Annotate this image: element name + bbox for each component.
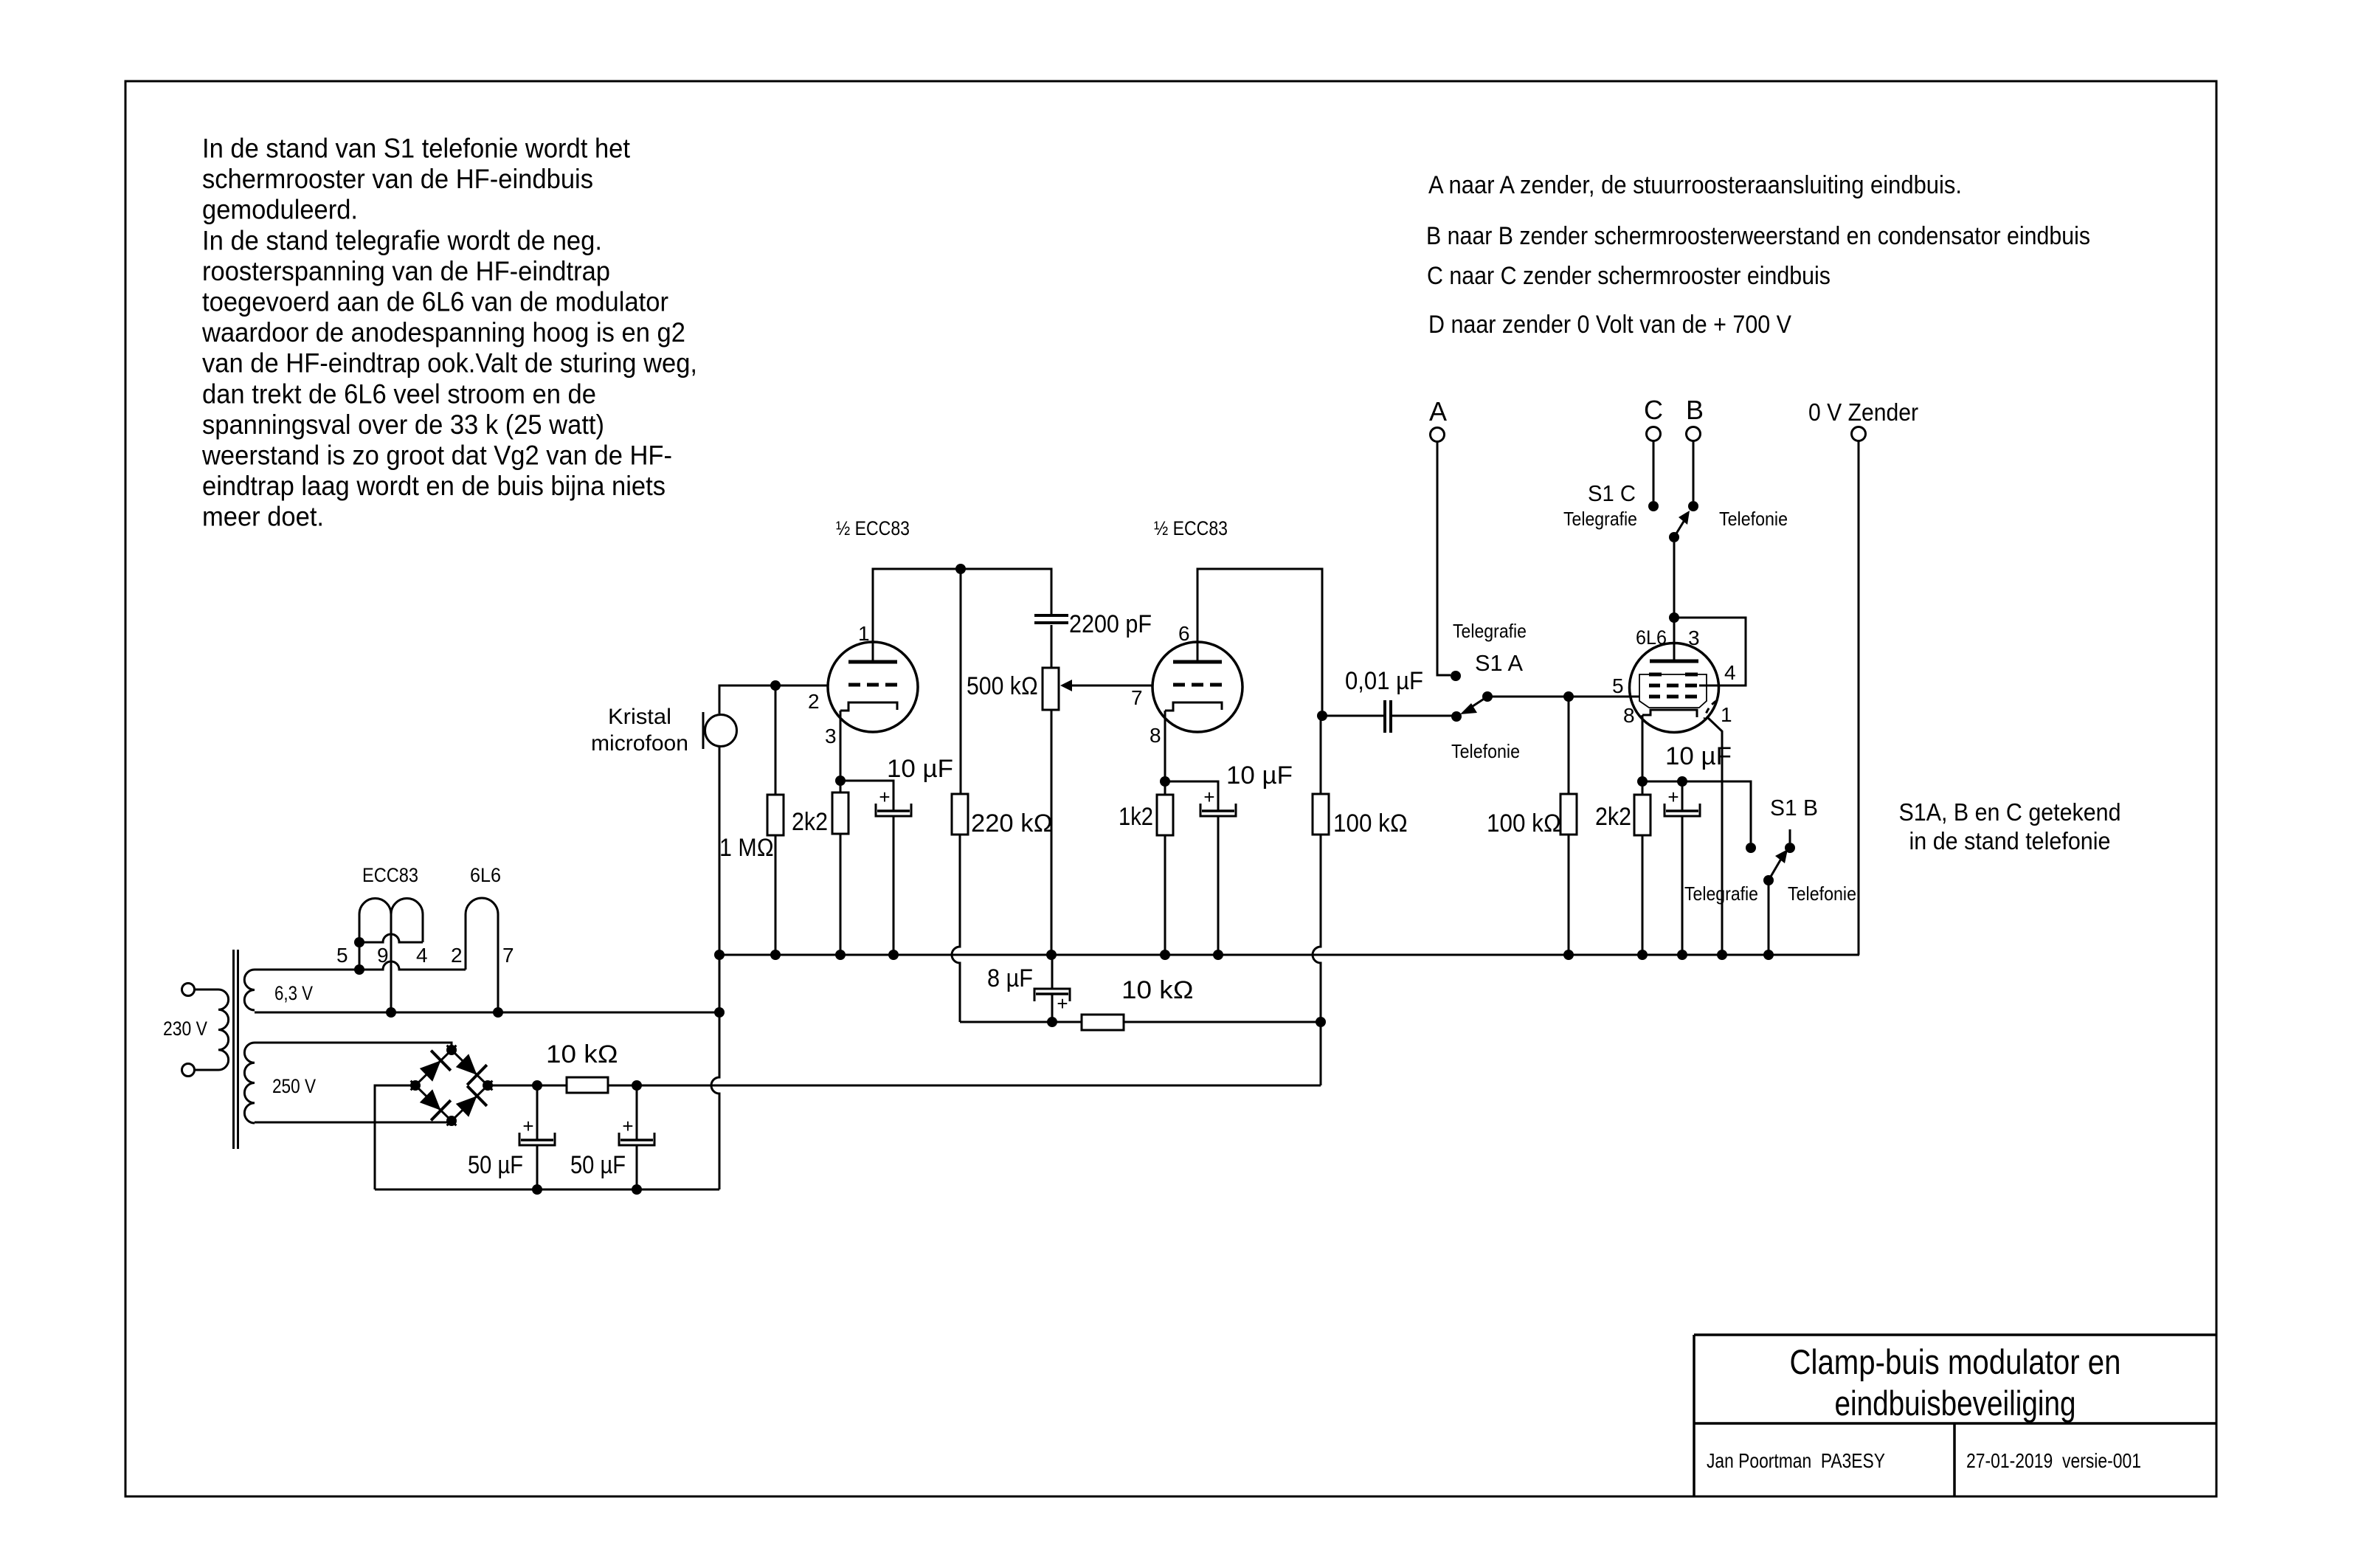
6L6 pin 1 dashed arc [1704, 701, 1716, 719]
wire 220k bottom with hop over ground bus [952, 835, 960, 1022]
wire 8uF to node [1051, 994, 1054, 1022]
node 6.3V pin5 [354, 964, 364, 975]
wire 50uF#1 top [536, 1085, 539, 1140]
svg-text:+: + [1667, 786, 1679, 808]
svg-text:B: B [1686, 395, 1704, 425]
wire 1M top [775, 685, 777, 795]
svg-text:500 kΩ: 500 kΩ [967, 672, 1038, 700]
svg-text:0 V Zender: 0 V Zender [1808, 398, 1918, 426]
svg-text:2: 2 [808, 690, 820, 713]
node bridge AC bottom [446, 1116, 457, 1126]
wire 2200pF to pot [1051, 625, 1053, 668]
wire 250V top to bridge [255, 1043, 452, 1050]
wire 10uF bottom [893, 816, 895, 955]
wire 0,01uF to S1A [1392, 715, 1456, 717]
svg-text:10 µF: 10 µF [1226, 761, 1293, 790]
6L6 beam plate dashes [1649, 673, 1662, 677]
wire V1 cathode down [840, 711, 842, 781]
svg-text:1: 1 [1721, 703, 1732, 726]
bridge diode D3 (left-bottom) [420, 1089, 441, 1111]
wire B+ node down [1320, 1022, 1322, 1085]
triode V2 (1/2 ECC83) [1152, 642, 1242, 732]
svg-text:4: 4 [416, 944, 428, 967]
svg-text:27-01-2019 versie-001: 27-01-2019 versie-001 [1966, 1449, 2141, 1472]
svg-text:10 µF: 10 µF [1665, 742, 1732, 770]
ground bus junction [1717, 950, 1727, 960]
terminal B [1687, 427, 1701, 441]
svg-text:roosterspanning van de HF-eind: roosterspanning van de HF-eindtrap [202, 256, 610, 286]
svg-text:eindbuisbeveiliging: eindbuisbeveiliging [1835, 1384, 2076, 1423]
node 8uF [1047, 1017, 1057, 1027]
wire V1 grid to microphone [719, 685, 828, 714]
capacitor 0,01uF [1383, 700, 1386, 733]
svg-text:ECC83: ECC83 [362, 864, 418, 886]
bridge diode D1 (left-top) [420, 1060, 441, 1082]
wire 50uF#2 top [636, 1085, 638, 1140]
svg-text:½ ECC83: ½ ECC83 [1154, 517, 1228, 539]
svg-text:10 kΩ: 10 kΩ [1121, 976, 1194, 1004]
svg-text:Kristal: Kristal [608, 705, 671, 729]
resistor 100k (grid leak 6L6) [1560, 794, 1577, 835]
wire to 1k2 [1164, 781, 1166, 795]
wire 2k2 bottom [840, 834, 842, 955]
wire 1k2 bottom [1164, 835, 1166, 955]
ground bus junction [1160, 950, 1170, 960]
svg-text:2: 2 [451, 944, 463, 967]
title block box [1694, 1335, 2216, 1496]
S1B pivot [1763, 875, 1774, 885]
wire 2k2 6L6 bottom [1642, 835, 1644, 955]
node 6L6 cathode [1637, 776, 1648, 787]
svg-text:+: + [879, 786, 890, 808]
svg-text:100 kΩ: 100 kΩ [1333, 809, 1408, 837]
wire 50uF#2 bottom [636, 1145, 638, 1189]
svg-text:7: 7 [502, 944, 514, 967]
svg-text:A naar A zender, de stuurroost: A naar A zender, de stuurroosteraansluit… [1428, 171, 1962, 199]
svg-text:eindtrap laag wordt en de buis: eindtrap laag wordt en de buis bijna nie… [202, 471, 666, 501]
ground bus junction [1763, 950, 1774, 960]
wire terminal C down [1653, 441, 1655, 501]
svg-text:spanningsval over de 33 k (25: spanningsval over de 33 k (25 watt) [202, 410, 604, 440]
capacitor 10uF (V2 cathode) [1202, 809, 1234, 812]
svg-text:50 µF: 50 µF [468, 1151, 523, 1179]
resistor 1k2 [1157, 795, 1173, 835]
pot wiper arrow to V2 grid [1071, 685, 1152, 687]
svg-text:2200 pF: 2200 pF [1069, 610, 1152, 638]
node 10uF 6L6 top [1677, 776, 1687, 787]
node V1 cathode [835, 776, 846, 786]
node 50uF #2 [632, 1080, 642, 1091]
wire cathode to 10uF (6L6) [1642, 781, 1682, 783]
S1C telegrafie contact [1648, 501, 1659, 511]
wire 6L6 cathode down [1642, 715, 1644, 781]
svg-text:Telefonie: Telefonie [1788, 883, 1856, 905]
6L6 control grid dashes [1649, 695, 1660, 699]
svg-text:1k2: 1k2 [1119, 803, 1153, 831]
ground bus junction [1046, 950, 1057, 960]
node grid / 1M [770, 680, 781, 691]
wire to 2k2 (6L6) [1642, 781, 1644, 795]
capacitor 8uF [1034, 989, 1070, 1001]
resistor 220k [952, 794, 968, 835]
svg-text:220 kΩ: 220 kΩ [971, 809, 1053, 837]
svg-text:2k2: 2k2 [792, 808, 828, 836]
6L6 grid cage box [1639, 674, 1707, 708]
B+ rail from bridge [488, 1085, 1321, 1087]
svg-text:+: + [1203, 786, 1214, 808]
S1A telegrafie contact [1451, 671, 1461, 681]
svg-text:B naar B zender schermroosterw: B naar B zender schermroosterweerstand e… [1426, 222, 2090, 250]
wire cathode to 10uF (V2) [1165, 781, 1218, 811]
wire V2 anode loop to output node [1197, 569, 1322, 711]
svg-text:Telegrafie: Telegrafie [1453, 620, 1527, 642]
node pin5 link [354, 937, 364, 947]
capacitor 2200pF [1034, 614, 1068, 617]
wire microphone to ground spine [719, 747, 721, 955]
heater pin4 leg [422, 914, 424, 942]
svg-text:+: + [622, 1115, 633, 1137]
terminal C [1647, 427, 1661, 441]
transformer 250V winding [244, 1043, 255, 1123]
potentiometer 500k [1043, 668, 1059, 710]
svg-text:Telegrafie: Telegrafie [1684, 883, 1758, 905]
transformer core [232, 950, 235, 1149]
wire S1A to 6L6 grid [1487, 696, 1639, 698]
wire terminal to primary [195, 989, 219, 991]
wire ground bus to 8uF [1051, 955, 1054, 988]
ground bus junction [835, 950, 846, 960]
svg-text:C: C [1644, 395, 1663, 425]
wire anode to S1C pivot [1673, 542, 1676, 618]
svg-text:C naar C zender schermrooster: C naar C zender schermrooster eindbuis [1427, 262, 1831, 290]
svg-text:In de stand van S1 telefonie w: In de stand van S1 telefonie wordt het [202, 134, 631, 164]
resistor 10k (decoupling) [1082, 1015, 1124, 1030]
svg-text:S1 A: S1 A [1475, 650, 1523, 676]
node V2 cathode [1160, 776, 1170, 787]
resistor 100k (V2 load) [1313, 794, 1329, 835]
6L6 heater arc [466, 898, 498, 914]
svg-text:S1A, B en C getekend: S1A, B en C getekend [1899, 798, 2121, 826]
transformer primary winding [218, 990, 229, 1070]
node 50uF#1 gnd [532, 1184, 542, 1195]
capacitor 50uF #1 [521, 1139, 553, 1142]
ground bus junction [770, 950, 781, 960]
primary terminal 1 [182, 984, 195, 996]
6.3V return line [255, 1012, 719, 1014]
svg-text:4: 4 [1724, 661, 1736, 684]
6.3V top line with hop [255, 961, 466, 970]
6L6 pin 1 wire [1707, 717, 1722, 955]
svg-text:1 MΩ: 1 MΩ [719, 834, 774, 862]
ground bus junction [1213, 950, 1223, 960]
heater pin5 leg [359, 914, 361, 970]
svg-text:Clamp-buis modulator en: Clamp-buis modulator en [1790, 1342, 2121, 1381]
svg-text:8 µF: 8 µF [987, 964, 1033, 992]
svg-text:Jan Poortman PA3ESY: Jan Poortman PA3ESY [1707, 1449, 1885, 1472]
svg-text:Telefonie: Telefonie [1451, 740, 1520, 762]
S1B lever [1769, 859, 1781, 880]
S1A lever [1468, 697, 1487, 709]
node 6.3V return to ground spine [714, 1007, 725, 1018]
svg-text:8: 8 [1623, 704, 1635, 727]
resistor 2k2 (6L6) [1634, 795, 1650, 835]
capacitor 10uF (6L6 cathode) [1666, 809, 1698, 812]
wire V1 anode to 2200pF [873, 569, 1051, 662]
node pin9 on 6.3V return [386, 1007, 396, 1018]
wire 10uF 6L6 bottom [1681, 816, 1684, 955]
PSU ground bus [375, 1189, 719, 1191]
wire 100k right top [1568, 697, 1570, 794]
node bridge plus [483, 1080, 493, 1091]
ground spine with hop over B+ [711, 955, 719, 1189]
node bridge AC top [446, 1045, 457, 1055]
node 50uF#2 gnd [632, 1184, 642, 1195]
bridge diode D4 (bottom-right) [456, 1096, 477, 1117]
transformer 6.3V winding [244, 970, 255, 1010]
wire 10k to B+ node [1124, 1021, 1321, 1023]
wire terminal 2 to primary [195, 1069, 219, 1071]
svg-text:microfoon: microfoon [591, 731, 688, 756]
svg-text:½ ECC83: ½ ECC83 [836, 517, 910, 539]
S1A telefonie contact [1451, 711, 1462, 722]
svg-text:10 µF: 10 µF [887, 755, 953, 783]
ground bus junction [1563, 950, 1574, 960]
node 6L6 anode [1669, 612, 1679, 623]
svg-text:0,01 µF: 0,01 µF [1345, 667, 1423, 695]
svg-text:In de stand telegrafie wordt d: In de stand telegrafie wordt de neg. [202, 225, 602, 255]
ground bus junction [888, 950, 899, 960]
svg-text:in de stand telefonie: in de stand telefonie [1909, 827, 2111, 854]
svg-text:1: 1 [858, 622, 870, 645]
wire terminal A to S1A telegrafie contact [1437, 442, 1451, 675]
svg-text:D naar zender 0 Volt van de +: D naar zender 0 Volt van de + 700 V [1428, 311, 1791, 339]
svg-text:230 V: 230 V [163, 1018, 207, 1040]
wire V2 cathode down [1164, 711, 1166, 781]
svg-text:dan trekt de 6L6 veel stroom e: dan trekt de 6L6 veel stroom en de [202, 379, 596, 409]
svg-text:8: 8 [1150, 724, 1161, 747]
ground bus junction [714, 950, 725, 960]
wire 10uF V2 bottom [1217, 816, 1220, 955]
svg-text:5: 5 [1612, 674, 1624, 697]
svg-text:6: 6 [1178, 622, 1190, 645]
svg-text:waardoor de anodespanning hoog: waardoor de anodespanning hoog is en g2 [201, 317, 685, 348]
kristal microfoon symbol [705, 715, 737, 747]
svg-text:meer doet.: meer doet. [202, 502, 324, 532]
wire 250V bottom to bridge [255, 1122, 452, 1124]
B+ line 220k to V2 load [960, 1021, 1082, 1023]
capacitor 10uF (V1 cathode) [877, 809, 910, 812]
6L6 cathode [1642, 710, 1697, 717]
svg-text:S1 B: S1 B [1770, 795, 1818, 821]
svg-text:S1 C: S1 C [1588, 480, 1636, 506]
pin5-pin4 link with hop [359, 934, 423, 942]
svg-text:Telegrafie: Telegrafie [1563, 508, 1637, 530]
6L6 screen grid dashes [1649, 684, 1660, 688]
node 50uF #1 [532, 1080, 542, 1091]
ground bus [719, 954, 1859, 956]
S1C pivot [1669, 532, 1679, 542]
svg-text:gemoduleerd.: gemoduleerd. [202, 195, 358, 225]
node V2 output [1317, 711, 1327, 721]
terminal 0V zender [1852, 427, 1866, 441]
wire bridge minus to PSU ground [375, 1085, 415, 1189]
S1A pivot [1482, 691, 1493, 702]
bridge diamond [447, 1046, 493, 1091]
wire 10uF 6L6 riser [1681, 781, 1684, 811]
S1B telefonie contact [1785, 843, 1795, 853]
wire cathode to 10uF cap [840, 781, 893, 811]
svg-text:250 V: 250 V [272, 1075, 316, 1097]
heater 6L6 pin7 leg [497, 914, 499, 1012]
resistor 10k (PSU) [567, 1077, 608, 1093]
6L6 anode plate [1650, 660, 1698, 663]
svg-text:weerstand is zo groot dat Vg2: weerstand is zo groot dat Vg2 van de HF- [201, 441, 672, 471]
svg-text:7: 7 [1131, 686, 1143, 709]
svg-text:100 kΩ: 100 kΩ [1487, 809, 1561, 837]
ground bus junction [1637, 950, 1648, 960]
bridge diode D2 (top-right) [456, 1054, 477, 1075]
node B+ / V2 load [1316, 1017, 1326, 1027]
node 100k (right) top [1563, 691, 1574, 702]
6L6 screen loop to pin 4 [1674, 618, 1746, 685]
node pin7 on 6.3V return [493, 1007, 503, 1018]
wire cathode to S1B telegrafie contact [1682, 781, 1751, 843]
resistor 1M [767, 795, 784, 835]
6L6 anode riser [1673, 618, 1676, 661]
wire V2 node to 100k [1320, 716, 1322, 794]
capacitor 50uF #2 [621, 1139, 653, 1142]
6L6 envelope [1630, 643, 1719, 733]
wire 1M bottom [775, 835, 777, 955]
svg-text:6L6: 6L6 [470, 864, 501, 886]
svg-text:2k2: 2k2 [1595, 803, 1631, 831]
triode V1 (1/2 ECC83) [828, 642, 918, 732]
wire 100k V2 bottom with hop over ground bus [1313, 835, 1321, 1022]
svg-text:toegevoerd aan de 6L6 van de m: toegevoerd aan de 6L6 van de modulator [202, 287, 668, 317]
node V1 anode rail / 220k [955, 564, 966, 574]
resistor 2k2 (V1) [832, 792, 848, 834]
svg-text:van de HF-eindtrap ook.Valt de: van de HF-eindtrap ook.Valt de sturing w… [202, 348, 697, 379]
ECC83 heater arcs [359, 899, 423, 915]
svg-text:6,3 V: 6,3 V [274, 982, 313, 1004]
wire 100k right bottom [1568, 835, 1570, 955]
heater 6L6 pin2 leg [465, 914, 467, 970]
svg-text:+: + [522, 1115, 533, 1137]
S1B telegrafie contact [1746, 843, 1756, 853]
svg-text:+: + [1057, 992, 1068, 1015]
heater pin9 leg [390, 914, 393, 1012]
svg-text:10 kΩ: 10 kΩ [546, 1040, 618, 1068]
wire S1B pivot to ground bus [1768, 880, 1770, 955]
svg-text:5: 5 [336, 944, 348, 967]
svg-text:Telefonie: Telefonie [1719, 508, 1788, 530]
wire 220k top [960, 569, 962, 794]
svg-text:3: 3 [825, 725, 837, 747]
wire output node to 0,01uF [1322, 715, 1383, 717]
svg-text:A: A [1429, 396, 1447, 426]
svg-text:3: 3 [1688, 626, 1700, 649]
S1C lever [1674, 520, 1684, 537]
svg-text:schermrooster van de HF-eindbu: schermrooster van de HF-eindbuis [202, 164, 593, 194]
ground bus junction [1677, 950, 1687, 960]
S1B telefonie stub [1789, 829, 1791, 843]
primary terminal 2 [182, 1064, 195, 1077]
wire terminal B down [1693, 441, 1695, 501]
terminal A [1431, 428, 1445, 442]
wire 0V zender down to ground bus [1858, 441, 1860, 955]
node bridge minus [410, 1080, 421, 1091]
wire to 2k2 [840, 781, 842, 792]
S1C telefonie contact [1688, 501, 1698, 511]
wire pot bottom to ground bus [1051, 710, 1053, 955]
border frame [125, 81, 2216, 1496]
svg-text:50 µF: 50 µF [570, 1151, 626, 1179]
wire 50uF#1 bottom [536, 1145, 539, 1189]
